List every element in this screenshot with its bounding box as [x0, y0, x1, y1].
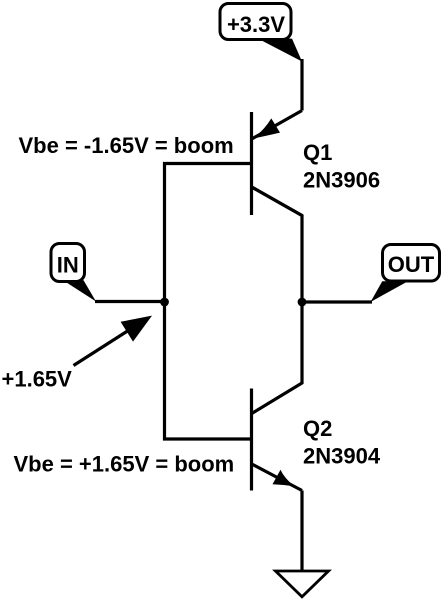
input flag IN [51, 244, 96, 302]
svg-text:IN: IN [57, 252, 79, 277]
wire IN to node [95, 300, 165, 303]
wire Q1 collector rail down through OUT node to Q2 collector [252, 187, 302, 414]
wire node to OUT [302, 300, 372, 303]
svg-text:2N3904: 2N3904 [303, 444, 381, 469]
svg-text:2N3906: 2N3906 [303, 167, 380, 192]
junction dot at input node [160, 298, 169, 307]
svg-text:Vbe = +1.65V = boom: Vbe = +1.65V = boom [14, 452, 235, 477]
ground [276, 571, 329, 597]
svg-text:OUT: OUT [388, 252, 435, 277]
wire Q2 emitter to ground [300, 491, 303, 571]
wire from +3.3V to Q1 emitter elbow [300, 59, 303, 111]
svg-text:+3.3V: +3.3V [227, 12, 285, 37]
svg-text:+1.65V: +1.65V [2, 367, 73, 392]
junction dot at output node [298, 298, 307, 307]
supply flag +3.3V [220, 4, 302, 62]
annotation arrow to input node [74, 316, 153, 366]
svg-text:Q2: Q2 [303, 416, 332, 441]
transistor Q2 (NPN 2N3904) [252, 389, 303, 491]
svg-text:Vbe = -1.65V = boom: Vbe = -1.65V = boom [19, 133, 234, 158]
wire Q1 base to left rail and down to Q2 base [165, 164, 253, 440]
svg-text:Q1: Q1 [303, 140, 332, 165]
transistor Q1 (PNP 2N3906) [252, 111, 303, 216]
output flag OUT [371, 245, 440, 303]
